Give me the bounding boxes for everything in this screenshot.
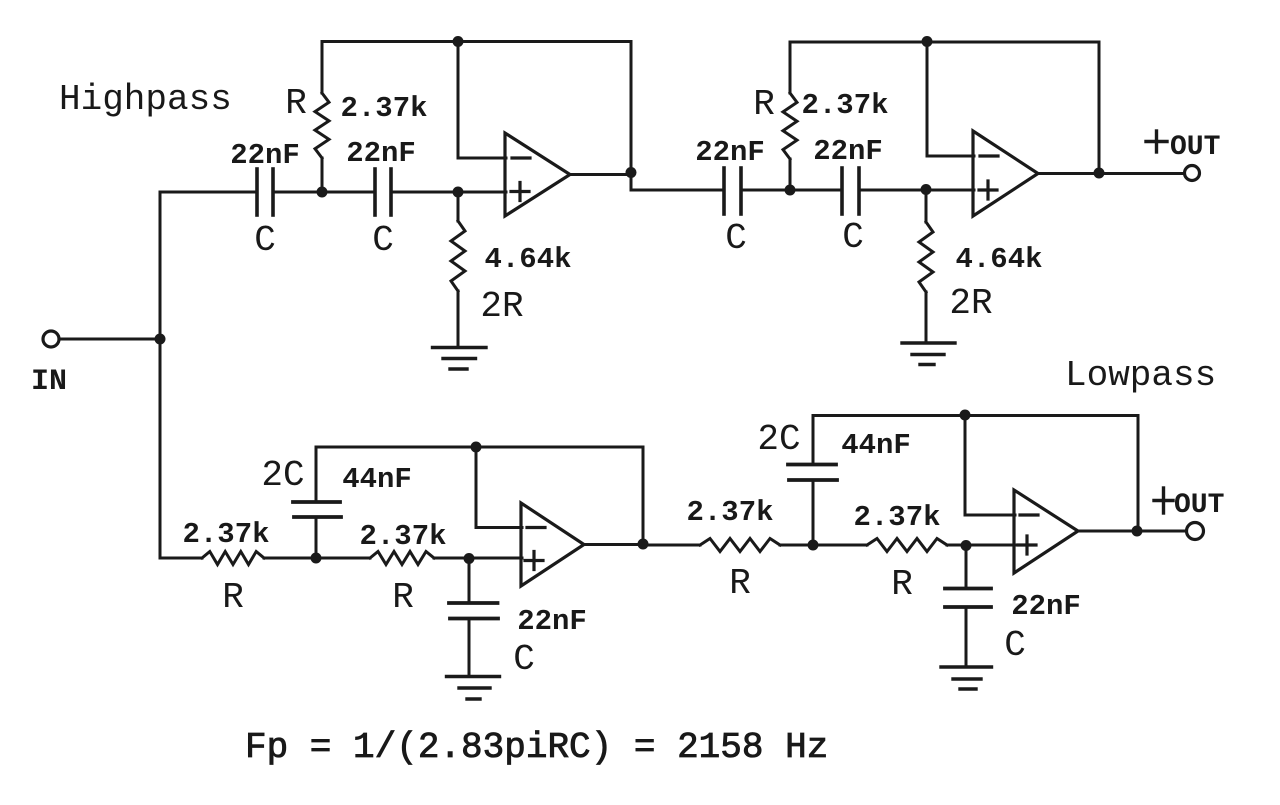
wire C1 to node B [273, 191, 322, 194]
wire node K to U3 minus input [476, 447, 522, 528]
node O junction dot on feedback [960, 410, 971, 421]
wire node G to U2 plus input [926, 189, 974, 192]
node J junction dot [311, 553, 322, 564]
svg-text:4.64k: 4.64k [484, 243, 571, 276]
wire HP1 output to HP2 input [631, 189, 724, 192]
node F junction dot [785, 185, 796, 196]
ground GND4 [941, 667, 992, 689]
resistor R5 2.37k [202, 552, 264, 565]
svg-text:OUT: OUT [1170, 132, 1220, 163]
svg-text:R: R [729, 563, 751, 604]
svg-text:44nF: 44nF [841, 429, 911, 462]
svg-text:22nF: 22nF [813, 135, 883, 168]
plus sign of +OUT highpass [1146, 131, 1167, 152]
svg-text:2C: 2C [757, 419, 800, 460]
node C junction dot [453, 187, 464, 198]
resistor R6 2.37k [370, 552, 434, 565]
svg-text:C: C [842, 217, 864, 258]
wire HP1 input segment [160, 191, 257, 194]
svg-text:22nF: 22nF [346, 137, 416, 170]
svg-text:OUT: OUT [1174, 490, 1224, 521]
wire node J up to C5 [315, 518, 318, 558]
wire C2 to node C [391, 191, 458, 194]
wire C5 top to feedback [315, 447, 318, 502]
ground GND3 [447, 677, 500, 700]
svg-text:R: R [891, 564, 913, 605]
wire node D to U1 minus input [458, 42, 506, 159]
op-amp U1 [505, 133, 570, 216]
wire node H to U2 minus input [927, 42, 974, 156]
wire R6 segment from node J [316, 557, 370, 560]
wire LP2 feedback right leg [1137, 416, 1140, 532]
node I junction dot [1094, 168, 1105, 179]
wire C4 segment from node F [790, 189, 842, 192]
wire node C to U1 plus input [458, 191, 506, 194]
wire IN to node A [60, 338, 161, 341]
node H junction dot on feedback [922, 36, 933, 47]
svg-text:R: R [753, 84, 775, 125]
wire C7 top to feedback [812, 416, 815, 465]
capacitor C8 22nF [945, 589, 991, 608]
wire LP1 input segment [160, 557, 202, 560]
svg-text:4.64k: 4.64k [955, 243, 1042, 276]
plus sign of +OUT lowpass [1154, 488, 1173, 513]
wire C2 segment from node B [322, 191, 375, 194]
wire HP1 feedback right leg [630, 42, 633, 191]
wire R8 to node P [947, 544, 966, 547]
node P junction dot [961, 540, 972, 551]
svg-text:C: C [1004, 625, 1026, 666]
node G junction dot [921, 184, 932, 195]
svg-text:C: C [725, 218, 747, 259]
svg-text:R: R [285, 83, 307, 124]
node A junction dot [155, 334, 166, 345]
svg-text:2C: 2C [261, 455, 304, 496]
capacitor C3 22nF [724, 168, 741, 214]
svg-text:2.37k: 2.37k [182, 518, 269, 551]
capacitor C5 2C 44nF [293, 502, 341, 517]
svg-text:22nF: 22nF [1011, 590, 1081, 623]
wire R5 to node J [264, 557, 316, 560]
wire C6 to ground [468, 619, 471, 676]
svg-text:Fp = 1/(2.83piRC) = 2158 Hz: Fp = 1/(2.83piRC) = 2158 Hz [245, 727, 828, 768]
wire node A vertical to highpass and lowpass branches [159, 192, 162, 558]
svg-text:R: R [392, 577, 414, 618]
node B junction dot [317, 187, 328, 198]
capacitor C7 2C 44nF [788, 465, 837, 481]
svg-text:2.37k: 2.37k [686, 496, 773, 529]
op-amp U3 [521, 503, 584, 586]
terminal OUT2 [1187, 523, 1204, 540]
wire C3 to node F [741, 189, 790, 192]
wire C4 to node G [859, 189, 926, 192]
svg-text:2.37k: 2.37k [359, 520, 446, 553]
svg-text:Highpass: Highpass [59, 79, 232, 120]
node K junction dot on feedback [471, 442, 482, 453]
terminal IN [43, 331, 59, 347]
wire HP2 feedback right leg [1098, 42, 1101, 174]
op-amp U4 [1014, 490, 1078, 573]
resistor R8 2.37k [867, 539, 947, 552]
node L junction dot [464, 553, 475, 564]
capacitor C1 22nF [257, 169, 273, 215]
svg-text:C: C [254, 220, 276, 261]
capacitor C6 22nF [449, 603, 498, 619]
ground GND2 [902, 343, 955, 365]
svg-text:2.37k: 2.37k [801, 89, 888, 122]
wire node L down to C6 [468, 558, 471, 603]
ground GND1 [433, 348, 487, 370]
resistor R2 4.64k [451, 192, 465, 346]
capacitor C2 22nF [375, 169, 391, 215]
wire C8 to ground [965, 607, 968, 666]
wire HP2 feedback top [790, 41, 1099, 44]
svg-text:Lowpass: Lowpass [1065, 355, 1216, 396]
wire HP1 feedback top [322, 40, 631, 43]
terminal OUT1 [1185, 166, 1200, 181]
svg-text:22nF: 22nF [230, 139, 300, 172]
svg-text:C: C [372, 220, 394, 261]
svg-text:C: C [513, 639, 535, 680]
wire node L to U3 plus input [469, 557, 522, 560]
resistor R4 4.64k [919, 190, 933, 342]
wire node N up to C7 [812, 481, 815, 545]
svg-text:2.37k: 2.37k [853, 501, 940, 534]
svg-text:22nF: 22nF [695, 136, 765, 169]
node N junction dot [808, 540, 819, 551]
wire LP1 output to LP2 input [643, 544, 700, 547]
node E junction dot [626, 167, 637, 178]
wire U3 output [584, 543, 643, 546]
wire node P to U4 plus input [966, 544, 1015, 547]
wire U4 output to OUT [1078, 530, 1187, 533]
svg-text:22nF: 22nF [517, 605, 587, 638]
svg-text:2.37k: 2.37k [340, 92, 427, 125]
resistor R7 2.37k [700, 539, 780, 552]
wire R6 to node L [434, 557, 469, 560]
node D junction dot on feedback [453, 36, 464, 47]
resistor R1 2.37k [315, 42, 329, 193]
svg-text:44nF: 44nF [342, 463, 412, 496]
wire U1 output [570, 173, 631, 176]
wire node O to U4 minus input [965, 416, 1015, 516]
svg-text:IN: IN [31, 365, 67, 399]
wire U2 output to OUT [1038, 172, 1185, 175]
svg-text:R: R [222, 577, 244, 618]
wire LP1 feedback right leg [642, 447, 645, 545]
node M junction dot [638, 539, 649, 550]
svg-text:2R: 2R [949, 283, 992, 324]
wire LP2 feedback top [813, 414, 1138, 417]
svg-text:2R: 2R [480, 286, 523, 327]
wire LP1 feedback top [316, 446, 643, 449]
wire R8 segment from node N [813, 544, 867, 547]
wire node P down to C8 [965, 545, 968, 589]
capacitor C4 22nF [842, 168, 859, 214]
op-amp U2 [973, 131, 1038, 216]
wire R7 to node N [780, 544, 813, 547]
node Q junction dot [1132, 526, 1143, 537]
resistor R3 2.37k [783, 42, 797, 190]
